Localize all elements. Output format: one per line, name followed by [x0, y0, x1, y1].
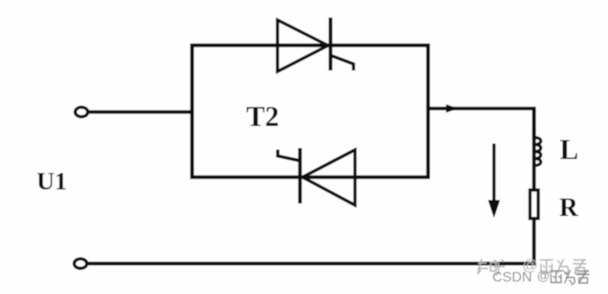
svg-text:R: R: [559, 193, 578, 222]
thyristor top: triangle (anode left, pointing right): [278, 20, 329, 72]
thyristor bottom: triangle (anode right, pointing left): [303, 150, 356, 205]
char zhi: [478, 259, 497, 274]
svg-text:CSDN: CSDN: [492, 269, 532, 285]
svg-text:L: L: [560, 135, 579, 166]
thyristor bottom: gate lead: [278, 150, 299, 161]
char jun2: [577, 270, 590, 284]
wire: top-right from box to load branch: [428, 109, 534, 141]
svg-text:U1: U1: [37, 168, 68, 195]
char jun1: [573, 259, 587, 274]
resistor R: [530, 190, 538, 219]
wire: bottom from terminal to right branch: [87, 262, 536, 266]
char hu: [493, 260, 506, 276]
arrow: load current direction: [492, 144, 495, 204]
wire: right branch vertical: [532, 109, 536, 264]
inductor L: [534, 137, 541, 165]
char wei2: [565, 270, 575, 285]
char wei1: [557, 259, 568, 275]
terminal: bottom-left input: [74, 259, 87, 269]
box: anti-parallel thyristor module outline T2: [192, 45, 428, 177]
svg-text:@: @: [537, 268, 550, 283]
wire: top-left from terminal to box: [87, 110, 194, 114]
char yu2: [550, 271, 563, 283]
watermark line 1: zhihu @yuweijun (light gray): [478, 259, 506, 275]
char yu1: [540, 260, 554, 274]
svg-text:T2: T2: [246, 102, 279, 133]
arrowhead: current direction on top wire: [446, 104, 458, 112]
thyristor bottom: cathode bar: [298, 148, 302, 204]
thyristor top: cathode bar: [329, 18, 333, 71]
thyristor top: gate lead: [331, 56, 354, 71]
terminal: top-left input: [75, 107, 88, 117]
